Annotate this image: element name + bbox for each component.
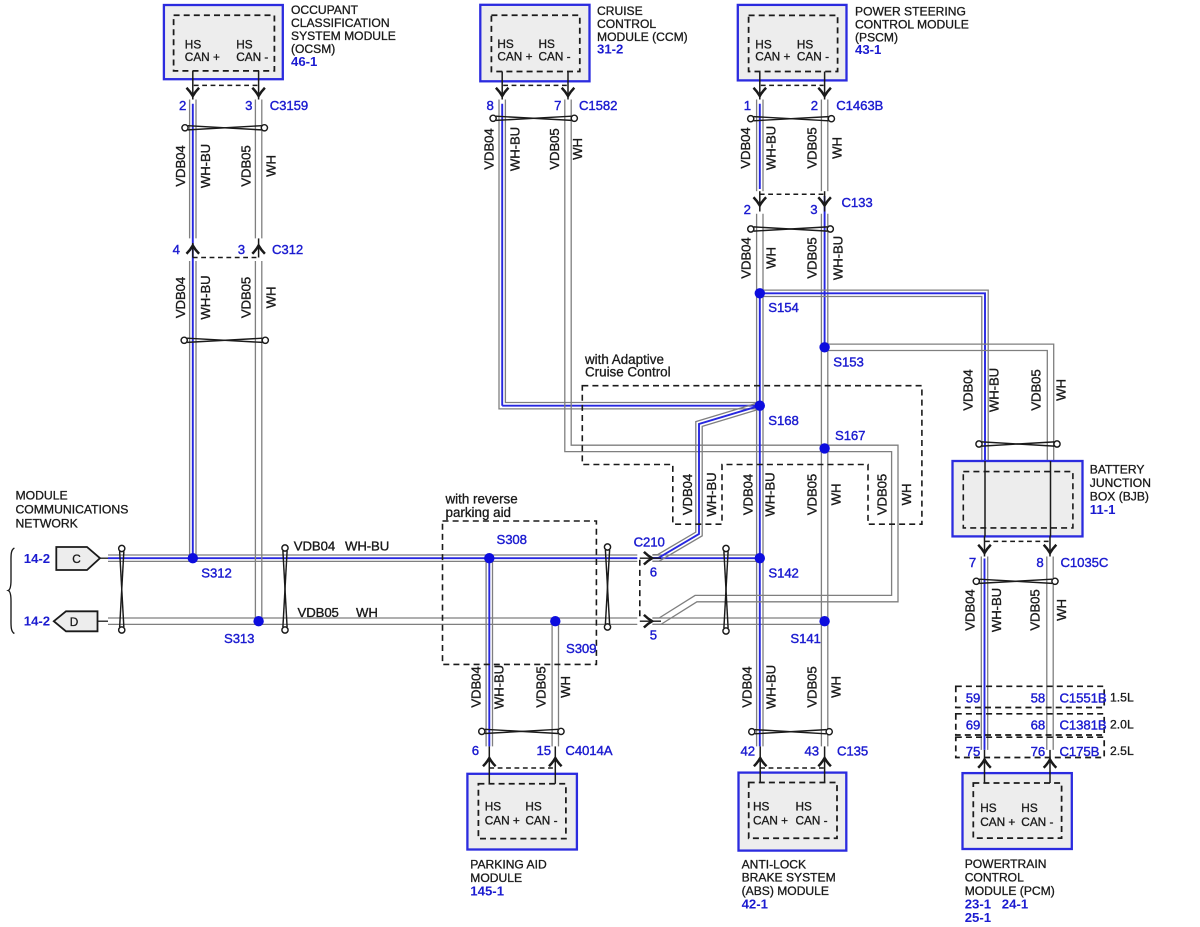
svg-text:VDB04: VDB04 (173, 277, 188, 318)
svg-text:VDB04: VDB04 (741, 474, 756, 515)
svg-text:D: D (70, 615, 79, 629)
svg-text:WH: WH (558, 676, 573, 698)
svg-text:WH-BU: WH-BU (492, 665, 507, 709)
svg-text:S153: S153 (833, 355, 863, 370)
svg-text:VDB04: VDB04 (294, 539, 335, 554)
svg-text:CAN +: CAN + (497, 50, 532, 64)
svg-text:25-1: 25-1 (965, 910, 991, 925)
svg-text:31-2: 31-2 (597, 42, 623, 57)
svg-text:OCCUPANT: OCCUPANT (291, 3, 359, 17)
svg-text:VDB04: VDB04 (469, 666, 484, 707)
svg-text:WH: WH (356, 605, 378, 620)
svg-text:VDB04: VDB04 (738, 127, 753, 168)
svg-text:CAN +: CAN + (980, 815, 1015, 829)
svg-text:145-1: 145-1 (470, 883, 504, 898)
svg-text:42: 42 (741, 744, 755, 759)
svg-text:WH: WH (830, 137, 845, 159)
svg-text:75: 75 (966, 744, 980, 759)
svg-text:parking aid: parking aid (446, 505, 512, 520)
svg-text:CONTROL: CONTROL (597, 17, 656, 31)
svg-text:43-1: 43-1 (855, 42, 881, 57)
svg-text:POWERTRAIN: POWERTRAIN (965, 857, 1047, 871)
svg-text:WH-BU: WH-BU (198, 144, 213, 188)
svg-text:WH: WH (264, 155, 279, 177)
svg-text:6: 6 (472, 743, 479, 758)
svg-text:BRAKE SYSTEM: BRAKE SYSTEM (742, 871, 836, 885)
svg-text:WH-BU: WH-BU (345, 539, 389, 554)
svg-text:CRUISE: CRUISE (597, 4, 643, 18)
svg-text:CAN -: CAN - (525, 814, 557, 828)
svg-text:C4014A: C4014A (565, 743, 612, 758)
svg-text:1.5L: 1.5L (1110, 691, 1134, 705)
svg-text:C: C (72, 552, 81, 566)
svg-text:WH-BU: WH-BU (704, 472, 719, 516)
svg-text:WH-BU: WH-BU (989, 588, 1004, 632)
svg-text:CONTROL: CONTROL (965, 871, 1024, 885)
svg-text:C1035C: C1035C (1061, 555, 1109, 570)
svg-text:WH: WH (1054, 599, 1069, 621)
svg-text:VDB05: VDB05 (1028, 589, 1043, 630)
svg-text:WH-BU: WH-BU (763, 472, 778, 516)
svg-text:46-1: 46-1 (291, 54, 317, 69)
svg-text:59: 59 (966, 691, 980, 706)
svg-text:MODULE: MODULE (16, 489, 68, 503)
svg-text:7: 7 (969, 555, 976, 570)
svg-text:CAN -: CAN - (236, 50, 268, 64)
svg-text:CAN +: CAN + (485, 814, 520, 828)
svg-text:S309: S309 (566, 641, 596, 656)
svg-text:76: 76 (1031, 744, 1045, 759)
svg-text:S313: S313 (224, 631, 254, 646)
svg-text:WH-BU: WH-BU (507, 127, 522, 171)
svg-text:HS: HS (753, 800, 770, 814)
svg-text:24-1: 24-1 (1002, 896, 1028, 911)
svg-text:VDB05: VDB05 (1029, 369, 1044, 410)
svg-text:C1463B: C1463B (836, 98, 883, 113)
svg-text:42-1: 42-1 (742, 897, 768, 912)
svg-text:11-1: 11-1 (1090, 502, 1116, 517)
svg-text:2.0L: 2.0L (1110, 718, 1134, 732)
svg-text:14-2: 14-2 (24, 614, 50, 629)
svg-text:CAN -: CAN - (796, 814, 828, 828)
svg-text:VDB04: VDB04 (961, 369, 976, 410)
svg-text:S312: S312 (201, 566, 231, 581)
svg-text:HS: HS (1021, 801, 1038, 815)
svg-text:CAN +: CAN + (185, 50, 220, 64)
svg-text:8: 8 (486, 98, 493, 113)
svg-text:VDB04: VDB04 (680, 474, 695, 515)
svg-text:WH: WH (264, 287, 279, 309)
svg-text:WH-BU: WH-BU (831, 236, 846, 280)
svg-text:43: 43 (805, 744, 819, 759)
svg-text:VDB05: VDB05 (805, 237, 820, 278)
svg-text:WH-BU: WH-BU (198, 275, 213, 319)
svg-text:2: 2 (179, 98, 186, 113)
svg-text:COMMUNICATIONS: COMMUNICATIONS (16, 502, 129, 516)
svg-text:8: 8 (1036, 555, 1043, 570)
svg-text:VDB04: VDB04 (173, 145, 188, 186)
svg-text:C175B: C175B (1060, 744, 1100, 759)
svg-text:WH: WH (829, 676, 844, 698)
svg-text:CLASSIFICATION: CLASSIFICATION (291, 16, 390, 30)
svg-text:VDB04: VDB04 (963, 589, 978, 630)
svg-text:C1582: C1582 (579, 98, 617, 113)
svg-text:CAN +: CAN + (755, 50, 790, 64)
svg-text:VDB05: VDB05 (805, 474, 820, 515)
svg-text:5: 5 (650, 628, 657, 643)
svg-text:2.5L: 2.5L (1110, 744, 1134, 758)
svg-text:WH-BU: WH-BU (764, 126, 779, 170)
svg-text:14-2: 14-2 (24, 551, 50, 566)
svg-text:ANTI-LOCK: ANTI-LOCK (742, 857, 807, 871)
svg-text:BATTERY: BATTERY (1090, 463, 1145, 477)
svg-text:68: 68 (1031, 718, 1045, 733)
svg-text:VDB05: VDB05 (805, 666, 820, 707)
svg-text:WH: WH (764, 247, 779, 269)
svg-text:S167: S167 (835, 428, 865, 443)
svg-text:C133: C133 (842, 195, 873, 210)
svg-text:C1551B: C1551B (1060, 691, 1107, 706)
svg-text:WH: WH (1054, 379, 1069, 401)
svg-text:VDB05: VDB05 (875, 474, 890, 515)
svg-text:S141: S141 (790, 631, 820, 646)
svg-text:CAN -: CAN - (1021, 815, 1053, 829)
svg-text:58: 58 (1031, 691, 1045, 706)
svg-text:C1381B: C1381B (1060, 718, 1107, 733)
svg-text:VDB05: VDB05 (238, 145, 253, 186)
svg-text:15: 15 (537, 743, 551, 758)
svg-text:4: 4 (173, 242, 180, 257)
svg-text:WH-BU: WH-BU (987, 368, 1002, 412)
svg-text:NETWORK: NETWORK (16, 516, 78, 530)
svg-text:WH-BU: WH-BU (764, 665, 779, 709)
svg-text:3: 3 (238, 242, 245, 257)
svg-text:3: 3 (810, 202, 817, 217)
svg-text:SYSTEM MODULE: SYSTEM MODULE (291, 29, 396, 43)
svg-text:VDB05: VDB05 (547, 128, 562, 169)
svg-text:PARKING AID: PARKING AID (470, 858, 547, 872)
svg-text:C312: C312 (272, 242, 303, 257)
svg-text:HS: HS (485, 800, 502, 814)
svg-text:C135: C135 (837, 744, 868, 759)
svg-text:POWER STEERING: POWER STEERING (855, 5, 966, 19)
svg-text:C3159: C3159 (270, 98, 308, 113)
svg-text:WH: WH (570, 138, 585, 160)
svg-text:C210: C210 (634, 535, 665, 550)
svg-text:CAN +: CAN + (753, 814, 788, 828)
svg-text:7: 7 (554, 98, 561, 113)
svg-text:VDB05: VDB05 (805, 127, 820, 168)
svg-text:VDB04: VDB04 (740, 666, 755, 707)
svg-text:6: 6 (650, 565, 657, 580)
svg-text:CONTROL MODULE: CONTROL MODULE (855, 17, 969, 31)
svg-text:JUNCTION: JUNCTION (1090, 476, 1151, 490)
svg-text:VDB05: VDB05 (298, 605, 339, 620)
svg-text:VDB04: VDB04 (739, 237, 754, 278)
svg-text:VDB05: VDB05 (238, 277, 253, 318)
svg-text:HS: HS (525, 800, 542, 814)
svg-text:HS: HS (796, 800, 813, 814)
svg-text:HS: HS (980, 801, 997, 815)
svg-text:VDB05: VDB05 (534, 666, 549, 707)
svg-text:2: 2 (744, 202, 751, 217)
svg-text:S168: S168 (768, 413, 798, 428)
svg-text:3: 3 (245, 98, 252, 113)
svg-text:S308: S308 (497, 532, 527, 547)
svg-text:CAN -: CAN - (539, 50, 571, 64)
svg-text:2: 2 (811, 98, 818, 113)
svg-text:S142: S142 (768, 566, 798, 581)
svg-text:Cruise Control: Cruise Control (585, 365, 671, 380)
svg-text:S154: S154 (768, 300, 798, 315)
svg-text:VDB04: VDB04 (481, 128, 496, 169)
svg-text:69: 69 (966, 718, 980, 733)
svg-text:1: 1 (744, 98, 751, 113)
svg-text:WH: WH (899, 484, 914, 506)
svg-text:CAN -: CAN - (797, 50, 829, 64)
svg-text:WH: WH (829, 484, 844, 506)
